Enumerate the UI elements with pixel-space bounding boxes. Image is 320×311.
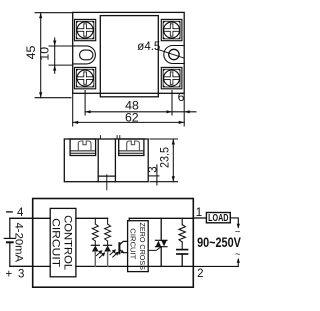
gate wire [148, 247, 161, 251]
battery plate long [4, 237, 15, 239]
LED D1 [91, 245, 99, 266]
right mounting hole [169, 49, 179, 59]
resistor R1 [92, 218, 98, 245]
screw terminal top-left [75, 19, 96, 40]
control circuit box [50, 208, 76, 276]
svg-text:ZERO CROSS: ZERO CROSS [138, 222, 145, 270]
center gap line right [114, 139, 116, 182]
LED D1 emission arrows [97, 250, 106, 258]
dimension 62 [73, 94, 185, 126]
wire AC to terminal 2 [193, 260, 238, 267]
snubber resistor R3 [179, 218, 185, 249]
left slot pocket [73, 46, 96, 64]
left terminal block [70, 139, 96, 156]
svg-text:3: 3 [18, 268, 24, 280]
resistor R2 [105, 218, 111, 245]
svg-text:3: 3 [148, 166, 160, 172]
screw terminal top-right [161, 19, 182, 40]
right terminal block [119, 139, 144, 156]
LED D2 emission arrows [110, 249, 119, 257]
svg-text:1: 1 [196, 207, 202, 219]
center gap line left [97, 139, 99, 182]
branch supply wire [76, 217, 108, 219]
phototransistor Q1 [119, 241, 127, 253]
svg-text:ø4.5: ø4.5 [137, 41, 160, 53]
svg-text:10: 10 [38, 47, 52, 61]
svg-text:4-20mA: 4-20mA [12, 223, 24, 263]
bottom center stub [106, 175, 108, 190]
side body [64, 139, 148, 182]
leader line for hole diameter [158, 49, 184, 58]
dimension 48 with 6 at right [85, 91, 196, 116]
svg-text:45: 45 [24, 46, 38, 60]
triac T1 [155, 218, 167, 266]
load box [206, 213, 230, 223]
LED D2 [104, 245, 112, 266]
screw terminal bottom-left [75, 67, 96, 88]
svg-text:CONTROL: CONTROL [62, 215, 74, 270]
right top rail [129, 217, 193, 219]
dimension 23.5 [150, 139, 178, 182]
left oval mounting slot [80, 50, 93, 60]
dimension 3 [149, 165, 159, 185]
zero cross circuit box [128, 221, 149, 272]
svg-text:CIRCUIT: CIRCUIT [50, 218, 62, 267]
wire load to AC [230, 218, 238, 227]
svg-text:23.5: 23.5 [158, 147, 172, 168]
dimension 10 [49, 38, 72, 73]
svg-text:2: 2 [197, 268, 203, 280]
svg-text:CIRCUIT: CIRCUIT [129, 228, 136, 260]
svg-text:62: 62 [125, 111, 139, 125]
source box bottom edge wire to control (terminal 3) [10, 265, 50, 267]
svg-text:4: 4 [17, 207, 24, 219]
schematic outer box [33, 199, 194, 288]
svg-text:6: 6 [178, 90, 185, 104]
right hole pocket [164, 46, 184, 64]
dimension 45 [35, 13, 72, 98]
label minus [7, 211, 12, 213]
bottom rail [76, 265, 193, 267]
current source box 4-20mA [10, 218, 33, 266]
svg-text:LOAD: LOAD [208, 213, 228, 224]
inner bottom line [98, 175, 115, 177]
svg-text:+: + [6, 269, 13, 281]
top edge stubs [99, 136, 101, 139]
screw terminal bottom-right [161, 67, 182, 88]
terminal 1 wire [193, 217, 206, 219]
source box top edge wire to control (terminal 4) [10, 217, 50, 219]
relay outer outline [73, 12, 185, 93]
snubber capacitor C1 [177, 250, 188, 267]
battery plate short [7, 241, 13, 243]
zero cross supply tap [128, 218, 130, 220]
svg-text:~: ~ [235, 249, 241, 260]
relay center cover outline [100, 16, 158, 97]
